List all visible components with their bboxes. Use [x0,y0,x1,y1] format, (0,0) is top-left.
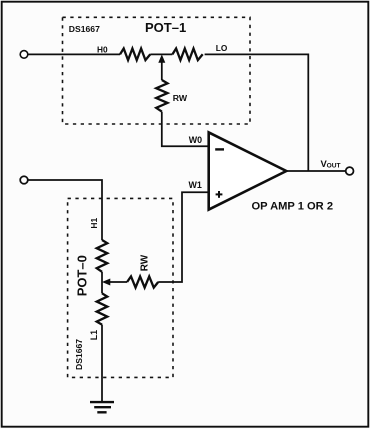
wire L1 to ground [101,325,103,402]
svg-text:DS1667: DS1667 [74,339,84,370]
resistor POT-0 upper half (H1 side) [97,240,108,272]
op-amp U1 triangle [209,132,287,209]
svg-text:LO: LO [216,43,228,53]
wire op-amp output to VOUT terminal [287,170,346,172]
wire RW to W1 op-amp non-inverting input [158,192,209,282]
resistor POT-1 lower half (LO side) [172,49,202,61]
svg-text:H0: H0 [97,44,108,54]
output terminal VOUT [346,167,354,175]
svg-text:DS1667: DS1667 [69,24,100,34]
DS1667 POT-0 dashed enclosure [68,198,173,377]
svg-text:RW: RW [140,254,151,271]
svg-text:W1: W1 [189,180,202,190]
svg-text:OUT: OUT [327,163,341,170]
wiper arrow POT-1 [159,55,165,80]
svg-text:RW: RW [173,93,188,103]
DS1667 POT-1 dashed enclosure [63,17,251,124]
net label VOUT [321,158,341,170]
svg-text:H1: H1 [89,217,99,228]
svg-text:POT–1: POT–1 [145,20,186,35]
wiper arrow POT-0 [103,279,127,285]
wire between resistor halves (wiper tap node) [150,53,172,55]
resistor RW of POT-1 (wiper resistance) [156,80,167,112]
resistor POT-0 lower half (L1 side) [97,293,108,324]
wire terminal to H1 [28,180,102,240]
wire RW to W0 op-amp inverting input [162,112,209,147]
wire LO to feedback down to output node [205,54,309,171]
wire between POT-0 halves (wiper tap node) [101,272,103,294]
op-amp non-inverting input plus sign [216,191,223,198]
input terminal (middle left) [20,176,28,184]
op-amp inverting input minus sign [215,148,224,150]
wire terminal to H0 resistor [28,53,120,55]
svg-text:L1: L1 [89,330,99,340]
resistor RW of POT-0 (wiper resistance) [127,276,158,287]
svg-text:W0: W0 [189,135,202,145]
input terminal (top left) [20,51,28,59]
svg-text:OP AMP 1 OR 2: OP AMP 1 OR 2 [252,200,334,212]
svg-text:POT–0: POT–0 [75,255,90,296]
resistor POT-1 upper half (H0 side) [120,49,150,61]
ground [90,402,114,412]
